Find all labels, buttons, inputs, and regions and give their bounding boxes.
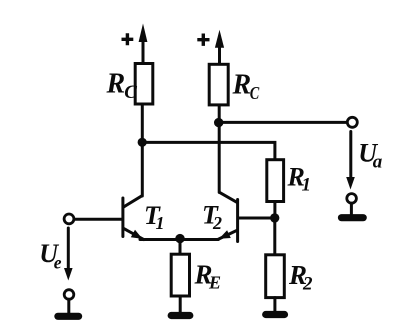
supply plus sign right: [197, 34, 209, 46]
label Ue: [39, 239, 62, 273]
label T1: [144, 201, 165, 233]
wire: emitter node down to RE: [179, 239, 182, 255]
svg-text:e: e: [54, 253, 62, 273]
resistor RC (right): [209, 64, 228, 105]
label RC left: [106, 69, 138, 104]
wire: R2 bottom to ground: [273, 298, 276, 312]
node A (T1 collector junction): [138, 138, 147, 147]
output ground stem: [350, 203, 353, 214]
svg-text:R: R: [232, 70, 252, 101]
supply plus sign left: [122, 33, 134, 45]
supply arrow right: [215, 30, 224, 64]
ground bar RE: [171, 312, 190, 319]
emitter junction node: [175, 234, 184, 243]
resistor R1: [267, 160, 284, 202]
svg-text:E: E: [208, 273, 221, 293]
wire: R1 bottom to node C: [273, 202, 276, 215]
svg-text:1: 1: [302, 175, 312, 196]
transistor T2: [218, 192, 238, 241]
svg-text:C: C: [124, 82, 137, 103]
wire: node C down to R2: [273, 218, 276, 255]
label RC right: [232, 70, 260, 104]
node B (output node): [214, 118, 223, 127]
svg-text:2: 2: [212, 213, 222, 233]
svg-text:a: a: [373, 152, 383, 173]
node C (R1/R2/base junction): [270, 213, 279, 222]
Ue voltage arrow: [64, 228, 73, 281]
svg-text:R: R: [106, 69, 126, 100]
wire: node B to output terminal: [219, 121, 348, 124]
label T2: [202, 201, 222, 234]
ground bar R2: [266, 311, 285, 318]
label Ua: [358, 139, 383, 173]
supply arrow left: [139, 24, 148, 63]
input terminal Ue (top circle): [64, 214, 74, 224]
wire: T2 collector up through output node to RC right: [218, 105, 221, 192]
transistor T1: [123, 196, 144, 240]
input ground bar: [58, 313, 79, 320]
ground bar output: [342, 214, 364, 221]
output lower terminal circle: [347, 194, 357, 204]
wire: T1 emitter to common node: [140, 238, 180, 241]
wire: node A to R1 top (crosses T2 collector line): [142, 142, 275, 160]
wire: RE bottom to ground: [179, 296, 182, 312]
input ground stem: [67, 299, 70, 313]
label R1: [287, 163, 312, 196]
label RE: [194, 260, 222, 293]
input lower terminal circle: [64, 290, 74, 300]
wire: T2 base lead to node C: [239, 217, 270, 220]
wire: T1 base lead: [74, 218, 121, 221]
output terminal Ua (top circle): [347, 117, 357, 127]
svg-text:C: C: [250, 83, 260, 103]
wire: common node to T2 emitter: [180, 238, 218, 241]
wire: RC left bottom to T1 collector: [141, 104, 144, 196]
Ua voltage arrow: [346, 132, 355, 190]
label R2: [288, 260, 313, 295]
svg-text:1: 1: [156, 213, 165, 233]
resistor RE: [171, 254, 189, 296]
svg-text:2: 2: [302, 274, 313, 295]
resistor R2: [266, 255, 285, 298]
resistor RC (left): [135, 64, 153, 105]
